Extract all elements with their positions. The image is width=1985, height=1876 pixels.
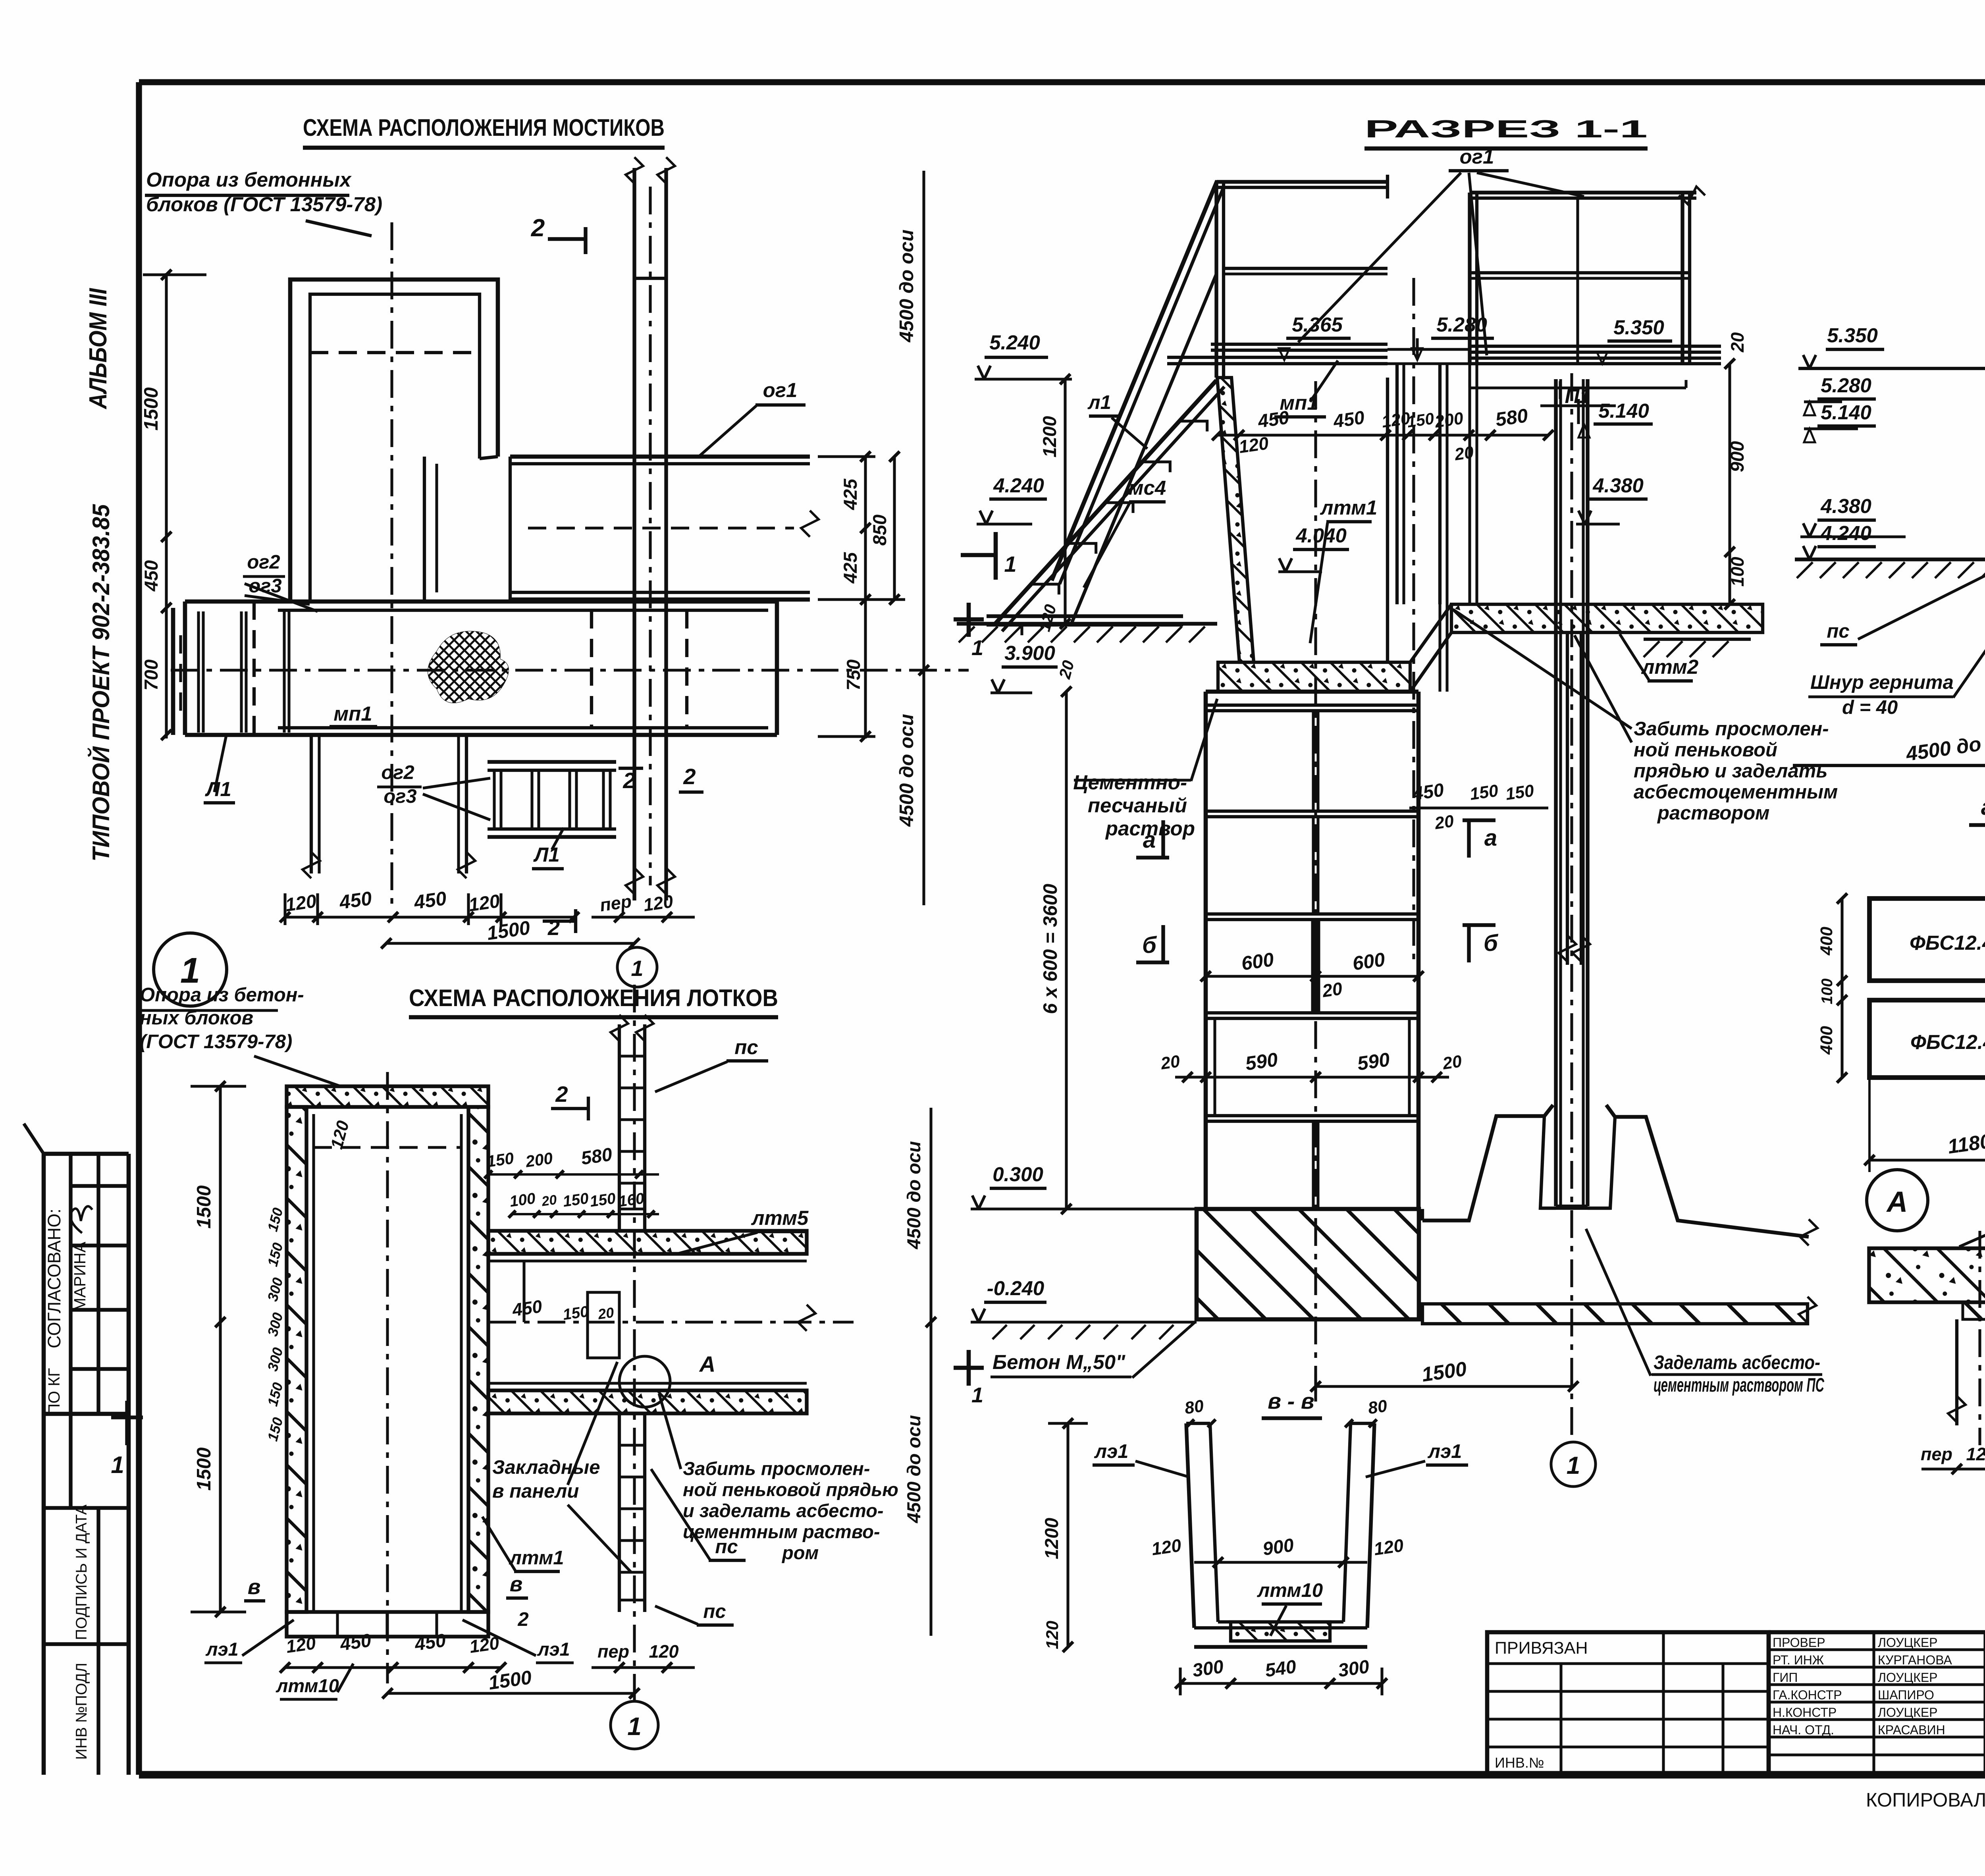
view1 left dim chain bbox=[165, 273, 168, 738]
svg-text:2: 2 bbox=[531, 214, 545, 242]
svg-text:20: 20 bbox=[1433, 812, 1455, 833]
svg-text:425: 425 bbox=[840, 552, 861, 584]
view3 left stair rails bbox=[1052, 181, 1217, 580]
svg-text:2: 2 bbox=[555, 1082, 568, 1107]
view4 ground left bbox=[1795, 557, 1985, 561]
svg-text:120: 120 bbox=[1372, 1535, 1405, 1559]
svg-text:20: 20 bbox=[1453, 443, 1475, 464]
view1 dims per 120 bbox=[592, 916, 695, 918]
svg-text:150: 150 bbox=[562, 1190, 590, 1211]
svg-text:20: 20 bbox=[597, 1304, 615, 1323]
detail A panel below bbox=[1955, 1319, 1958, 1425]
svg-text:450: 450 bbox=[338, 888, 373, 914]
svg-text:ной пеньковой: ной пеньковой bbox=[1634, 739, 1777, 761]
svg-text:ром: ром bbox=[781, 1542, 819, 1563]
view2 axis bbox=[386, 1072, 389, 1683]
svg-text:900: 900 bbox=[1727, 441, 1748, 472]
svg-text:120: 120 bbox=[1150, 1535, 1182, 1559]
svg-text:450: 450 bbox=[1256, 407, 1290, 432]
svg-text:100: 100 bbox=[1819, 978, 1836, 1004]
svg-text:б: б bbox=[1484, 930, 1499, 956]
svg-text:4500 до оси: 4500 до оси bbox=[1904, 727, 1985, 765]
view2 right wall bbox=[468, 1107, 488, 1612]
svg-text:прядью и заделать: прядью и заделать bbox=[1634, 760, 1827, 782]
sheet frame bbox=[139, 79, 1985, 85]
svg-text:АЛЬБОМ III: АЛЬБОМ III bbox=[85, 287, 112, 409]
svg-text:Бетон М„50": Бетон М„50" bbox=[992, 1351, 1125, 1373]
svg-text:120: 120 bbox=[1237, 433, 1270, 457]
view2 circle 1 bottom bbox=[611, 1701, 658, 1749]
svg-text:4.040: 4.040 bbox=[1295, 524, 1347, 547]
view1 right dim chains bbox=[864, 457, 867, 738]
svg-text:1500: 1500 bbox=[486, 917, 531, 945]
view1 section 1-1 mark right bbox=[961, 553, 996, 557]
svg-text:Опора из бетон-: Опора из бетон- bbox=[140, 984, 304, 1006]
section v-v bottom bbox=[1218, 1620, 1343, 1623]
view3 right platform bbox=[1468, 193, 1471, 364]
svg-text:ФБС12.4.6-Т: ФБС12.4.6-Т bbox=[1910, 931, 1985, 954]
view3 P1 bracket bbox=[1470, 386, 1686, 389]
view2 panel upper bbox=[618, 1024, 621, 1231]
svg-text:5.365: 5.365 bbox=[1292, 313, 1343, 336]
svg-text:4.380: 4.380 bbox=[1820, 495, 1871, 517]
svg-text:580: 580 bbox=[580, 1143, 613, 1168]
svg-text:мс4: мс4 bbox=[1129, 476, 1166, 499]
svg-text:-0.240: -0.240 bbox=[987, 1277, 1045, 1300]
svg-text:в: в bbox=[510, 1572, 523, 1596]
view2 arm inner lines bbox=[488, 1259, 807, 1262]
svg-text:5.240: 5.240 bbox=[989, 331, 1040, 354]
view3 bottom strip bbox=[1422, 1304, 1808, 1324]
view3 T1 mark bottom bbox=[967, 1350, 971, 1386]
svg-text:песчаный: песчаный bbox=[1088, 794, 1187, 817]
svg-text:20: 20 bbox=[1159, 1052, 1181, 1073]
svg-text:ШАПИРО: ШАПИРО bbox=[1878, 1688, 1934, 1702]
svg-text:ИНВ №ПОДЛ: ИНВ №ПОДЛ bbox=[73, 1663, 90, 1760]
svg-text:пер: пер bbox=[599, 891, 633, 916]
svg-text:1500: 1500 bbox=[193, 1185, 215, 1228]
view3 left deck bbox=[1211, 343, 1388, 346]
svg-text:5.350: 5.350 bbox=[1613, 316, 1664, 339]
svg-text:150: 150 bbox=[264, 1415, 286, 1443]
view3 circle 1 bottom bbox=[1551, 1442, 1596, 1487]
view3 right deck bbox=[1470, 345, 1721, 348]
view1 crosshatch blob bbox=[428, 631, 509, 703]
signature table bbox=[1767, 1632, 1771, 1775]
svg-text:590: 590 bbox=[1244, 1049, 1279, 1075]
view3 ground left bbox=[957, 622, 1217, 625]
view3 dim 900 right bbox=[1728, 364, 1731, 604]
view3 trough right edge bbox=[1386, 378, 1389, 662]
svg-text:лэ1: лэ1 bbox=[1094, 1441, 1129, 1462]
svg-text:пер: пер bbox=[1921, 1444, 1952, 1464]
svg-text:400: 400 bbox=[1817, 927, 1836, 956]
svg-text:ЛОУЦКЕР: ЛОУЦКЕР bbox=[1878, 1670, 1938, 1685]
left stamp table bbox=[42, 1154, 46, 1775]
svg-text:400: 400 bbox=[1817, 1026, 1836, 1055]
svg-text:5.140: 5.140 bbox=[1598, 399, 1649, 422]
view1 tank outline bbox=[290, 280, 498, 603]
svg-text:150: 150 bbox=[562, 1303, 590, 1324]
svg-text:450: 450 bbox=[413, 1629, 447, 1655]
section v-v dim 1200 bbox=[1066, 1423, 1069, 1647]
section v-v walls bbox=[1186, 1423, 1194, 1628]
svg-text:1: 1 bbox=[111, 1452, 124, 1478]
svg-text:пс: пс bbox=[734, 1036, 758, 1059]
detail A joint block bbox=[1963, 1302, 1985, 1319]
svg-text:4.240: 4.240 bbox=[993, 474, 1044, 497]
svg-text:пер: пер bbox=[597, 1641, 629, 1662]
section a-a block1 bbox=[1869, 898, 1985, 981]
view2 top wall strip bbox=[287, 1086, 488, 1107]
view3 dim 590 590 bbox=[1175, 1076, 1449, 1078]
svg-text:Шнур гернита: Шнур гернита bbox=[1810, 672, 1954, 693]
svg-text:Опора из бетонных: Опора из бетонных bbox=[146, 168, 352, 191]
svg-text:4.240: 4.240 bbox=[1820, 522, 1871, 544]
svg-text:А: А bbox=[699, 1352, 715, 1377]
svg-text:(ГОСТ 13579-78): (ГОСТ 13579-78) bbox=[140, 1031, 292, 1053]
svg-text:300: 300 bbox=[264, 1346, 286, 1373]
svg-text:150: 150 bbox=[486, 1149, 515, 1171]
view2 inner wall lines bbox=[312, 1114, 315, 1612]
svg-text:6 х 600 = 3600: 6 х 600 = 3600 bbox=[1040, 884, 1061, 1014]
svg-text:СХЕМА РАСПОЛОЖЕНИЯ ЛОТКОВ: СХЕМА РАСПОЛОЖЕНИЯ ЛОТКОВ bbox=[409, 985, 778, 1011]
svg-text:300: 300 bbox=[1337, 1656, 1370, 1681]
section mark 1 left bbox=[111, 1415, 143, 1419]
svg-text:4500 до оси: 4500 до оси bbox=[903, 1415, 924, 1523]
svg-text:0.300: 0.300 bbox=[992, 1163, 1043, 1186]
view3 trough left wall bbox=[1217, 378, 1254, 662]
view1 right walkway P1 bbox=[510, 455, 810, 459]
svg-text:СОГЛАСОВАНО:: СОГЛАСОВАНО: bbox=[44, 1209, 64, 1348]
view1 4500 do osi dim bbox=[922, 171, 925, 905]
svg-text:5.350: 5.350 bbox=[1827, 324, 1878, 347]
svg-text:150: 150 bbox=[1469, 781, 1499, 804]
view1 left arm bbox=[171, 608, 175, 735]
svg-text:540: 540 bbox=[1264, 1656, 1297, 1681]
svg-text:150: 150 bbox=[264, 1206, 286, 1233]
view2 detail circle A bbox=[619, 1356, 670, 1407]
svg-text:100: 100 bbox=[1727, 557, 1748, 586]
svg-text:ГИП: ГИП bbox=[1773, 1670, 1798, 1685]
view3 pedestal bbox=[1422, 1105, 1553, 1220]
view2 inner step lines bbox=[522, 1261, 525, 1322]
svg-text:Заделать асбесто-: Заделать асбесто- bbox=[1654, 1352, 1820, 1373]
svg-text:450: 450 bbox=[511, 1296, 543, 1320]
svg-text:120: 120 bbox=[1043, 1621, 1062, 1649]
svg-text:20: 20 bbox=[1727, 332, 1748, 353]
view3 deck across gap bbox=[1388, 348, 1470, 351]
svg-text:ЛОУЦКЕР: ЛОУЦКЕР bbox=[1878, 1635, 1938, 1650]
view3 T1 mark left bbox=[967, 603, 971, 637]
view2 right dim 4500 bbox=[929, 1108, 932, 1636]
svg-text:4500 до оси: 4500 до оси bbox=[896, 229, 917, 343]
svg-text:750: 750 bbox=[843, 659, 864, 690]
svg-text:300: 300 bbox=[264, 1276, 286, 1303]
svg-text:НАЧ. ОТД.: НАЧ. ОТД. bbox=[1773, 1723, 1834, 1737]
svg-text:лэ1: лэ1 bbox=[205, 1639, 238, 1660]
view3 dim 6x600 bbox=[1065, 692, 1068, 1209]
svg-text:ПОДПИСЬ И ДАТА: ПОДПИСЬ И ДАТА bbox=[73, 1504, 90, 1640]
svg-text:Л1: Л1 bbox=[533, 843, 559, 866]
svg-text:цементным раство-: цементным раство- bbox=[683, 1521, 880, 1542]
view3 right slab hatched bbox=[1451, 604, 1763, 632]
svg-text:120: 120 bbox=[285, 1633, 317, 1657]
svg-text:450: 450 bbox=[338, 1629, 372, 1655]
svg-text:150: 150 bbox=[264, 1380, 286, 1408]
svg-text:5.280: 5.280 bbox=[1436, 313, 1487, 336]
svg-text:120: 120 bbox=[1966, 1444, 1985, 1464]
svg-text:РТ. ИНЖ: РТ. ИНЖ bbox=[1773, 1653, 1824, 1667]
view3 ground right bbox=[1644, 638, 1751, 641]
svg-text:Забить просмолен-: Забить просмолен- bbox=[683, 1458, 870, 1479]
svg-text:лтм1: лтм1 bbox=[509, 1547, 564, 1569]
svg-text:Забить просмолен-: Забить просмолен- bbox=[1634, 718, 1829, 740]
detail A circle bbox=[1867, 1170, 1928, 1231]
svg-text:ог3: ог3 bbox=[384, 786, 416, 807]
svg-text:лтм2: лтм2 bbox=[1641, 656, 1699, 678]
view3 tower center joints bbox=[1312, 711, 1314, 811]
svg-text:700: 700 bbox=[141, 659, 162, 690]
view1 riser column bbox=[632, 168, 636, 900]
svg-text:120: 120 bbox=[467, 890, 501, 915]
svg-text:120: 120 bbox=[649, 1641, 678, 1662]
svg-text:КРАСАВИН: КРАСАВИН bbox=[1878, 1723, 1945, 1737]
view1 bottom dim chain bbox=[285, 916, 574, 918]
svg-text:лтм1: лтм1 bbox=[1320, 496, 1378, 519]
svg-text:120: 120 bbox=[642, 891, 674, 915]
view3 tower blocks bbox=[1204, 692, 1208, 1209]
view1 tank walls below band bbox=[310, 735, 313, 873]
svg-text:450: 450 bbox=[1411, 779, 1445, 804]
svg-text:1500: 1500 bbox=[1420, 1357, 1468, 1386]
svg-text:200: 200 bbox=[524, 1149, 554, 1171]
view3 left platform post bbox=[1214, 182, 1218, 378]
svg-text:1180: 1180 bbox=[1946, 1130, 1985, 1158]
svg-text:1: 1 bbox=[1567, 1452, 1580, 1479]
svg-text:120: 120 bbox=[468, 1633, 500, 1657]
svg-text:лтм10: лтм10 bbox=[1257, 1580, 1323, 1601]
svg-text:450: 450 bbox=[412, 888, 448, 914]
svg-text:1500: 1500 bbox=[193, 1447, 215, 1490]
svg-text:150: 150 bbox=[1504, 781, 1535, 804]
svg-text:лтм10: лтм10 bbox=[276, 1675, 339, 1696]
privyazan table bbox=[1487, 1632, 1769, 1775]
svg-text:300: 300 bbox=[1191, 1656, 1225, 1681]
svg-text:раствором: раствором bbox=[1657, 802, 1769, 824]
view1 bridge band MP1 bbox=[185, 600, 777, 604]
svg-text:А: А bbox=[1886, 1186, 1908, 1218]
view3 ps panel below slab bbox=[1566, 632, 1569, 965]
view3 dim 600 600 bbox=[1206, 975, 1418, 978]
svg-text:ПРИВЯЗАН: ПРИВЯЗАН bbox=[1495, 1639, 1588, 1658]
view1 axis horizontal bbox=[171, 669, 969, 671]
svg-text:Н.КОНСТР: Н.КОНСТР bbox=[1773, 1705, 1837, 1720]
svg-text:мп1: мп1 bbox=[333, 702, 372, 725]
svg-text:2: 2 bbox=[683, 764, 696, 789]
svg-text:ГА.КОНСТР: ГА.КОНСТР bbox=[1773, 1688, 1842, 1702]
svg-text:1500: 1500 bbox=[487, 1667, 533, 1694]
svg-text:4500 до оси: 4500 до оси bbox=[896, 714, 917, 827]
svg-text:ФБС12.4.6-Т: ФБС12.4.6-Т bbox=[1910, 1031, 1985, 1053]
svg-text:2: 2 bbox=[517, 1609, 528, 1630]
svg-text:пс: пс bbox=[715, 1536, 738, 1558]
svg-text:Цементно-: Цементно- bbox=[1073, 771, 1187, 794]
svg-text:1: 1 bbox=[631, 956, 643, 981]
svg-text:лэ1: лэ1 bbox=[537, 1639, 570, 1660]
svg-text:ог2: ог2 bbox=[381, 762, 414, 783]
svg-text:20: 20 bbox=[1441, 1052, 1463, 1073]
svg-text:ПО КГ: ПО КГ bbox=[45, 1368, 63, 1415]
view3 stair base plates bbox=[987, 614, 1183, 618]
svg-text:ог1: ог1 bbox=[1460, 145, 1494, 168]
svg-text:150: 150 bbox=[589, 1190, 617, 1211]
view3 stair treads bbox=[994, 625, 1022, 635]
view3 foundation block bbox=[1197, 1209, 1419, 1319]
svg-text:300: 300 bbox=[264, 1311, 286, 1338]
svg-text:5.280: 5.280 bbox=[1821, 374, 1871, 397]
svg-text:л1: л1 bbox=[1087, 392, 1111, 413]
svg-text:900: 900 bbox=[1261, 1534, 1295, 1559]
svg-text:МАРИНА: МАРИНА bbox=[71, 1242, 89, 1311]
svg-text:20: 20 bbox=[1321, 978, 1344, 1001]
view3 mid dim chain bbox=[1217, 434, 1548, 436]
svg-text:580: 580 bbox=[1494, 405, 1529, 431]
svg-text:100: 100 bbox=[509, 1190, 537, 1211]
view2 arm top strip bbox=[488, 1231, 807, 1254]
view2 bottom dim chain bbox=[285, 1666, 501, 1669]
svg-text:КОПИРОВАЛ:: КОПИРОВАЛ: bbox=[1866, 1789, 1985, 1811]
svg-text:4500 до оси: 4500 до оси bbox=[903, 1141, 924, 1249]
svg-text:600: 600 bbox=[1240, 949, 1275, 975]
view2 left dim chain bbox=[219, 1086, 222, 1612]
svg-text:160: 160 bbox=[617, 1190, 646, 1211]
view3 dim 1200 bbox=[1064, 379, 1066, 624]
svg-text:а: а bbox=[1143, 827, 1156, 853]
svg-text:ЛОУЦКЕР: ЛОУЦКЕР bbox=[1878, 1705, 1938, 1720]
svg-text:1: 1 bbox=[1004, 551, 1016, 576]
svg-text:200: 200 bbox=[1433, 409, 1465, 432]
view1 tank-walkway diagonal bbox=[480, 457, 498, 459]
view1 lower ladder bbox=[488, 760, 616, 764]
svg-text:1200: 1200 bbox=[1041, 1518, 1062, 1560]
svg-text:4.380: 4.380 bbox=[1592, 474, 1644, 497]
detail A slab bbox=[1869, 1248, 1985, 1302]
svg-text:1: 1 bbox=[627, 1712, 642, 1741]
svg-text:б: б bbox=[1142, 932, 1157, 958]
section a-a dim 1180 bbox=[1868, 1078, 1871, 1172]
svg-text:СХЕМА РАСПОЛОЖЕНИЯ МОСТИКОВ: СХЕМА РАСПОЛОЖЕНИЯ МОСТИКОВ bbox=[303, 114, 665, 141]
view4 4500 do osi bbox=[1793, 764, 1985, 767]
svg-text:асбестоцементным: асбестоцементным bbox=[1634, 781, 1838, 803]
svg-text:пс: пс bbox=[1827, 621, 1849, 642]
view3 central panel verticals bbox=[1395, 364, 1399, 604]
svg-text:лэ1: лэ1 bbox=[1428, 1441, 1462, 1462]
view3 tower axis bbox=[1314, 381, 1317, 1402]
svg-text:1500: 1500 bbox=[141, 387, 162, 430]
view2 arm bottom strip bbox=[488, 1390, 807, 1413]
svg-text:ТИПОВОЙ ПРОЕКТ 902-2-383.85: ТИПОВОЙ ПРОЕКТ 902-2-383.85 bbox=[87, 503, 114, 862]
svg-text:1: 1 bbox=[971, 636, 983, 660]
view3 dim 1500 bottom bbox=[1316, 1385, 1573, 1388]
svg-text:цементным раствором ПС: цементным раствором ПС bbox=[1654, 1375, 1824, 1396]
svg-text:450: 450 bbox=[141, 560, 162, 592]
svg-text:425: 425 bbox=[840, 478, 861, 510]
view3 left platform rails bbox=[1216, 180, 1388, 183]
view3 trough bottom band bbox=[1218, 662, 1410, 692]
view1 circle 1 left bbox=[154, 933, 227, 1006]
svg-text:а - а: а - а bbox=[1981, 794, 1985, 820]
svg-text:ог1: ог1 bbox=[763, 379, 798, 401]
svg-text:80: 80 bbox=[1183, 1396, 1205, 1418]
svg-text:ной пеньковой прядью: ной пеньковой прядью bbox=[683, 1479, 898, 1500]
svg-text:в: в bbox=[248, 1575, 261, 1599]
section v-v dims mid bbox=[1194, 1561, 1367, 1564]
svg-text:150: 150 bbox=[1406, 409, 1435, 431]
svg-text:ПРОВЕР: ПРОВЕР bbox=[1773, 1635, 1825, 1650]
svg-text:3.900: 3.900 bbox=[1004, 642, 1055, 664]
svg-text:20: 20 bbox=[1055, 658, 1078, 681]
svg-text:590: 590 bbox=[1356, 1049, 1391, 1075]
view2 bottom lintels bbox=[287, 1612, 488, 1637]
section a-a left dims bbox=[1840, 898, 1843, 1078]
svg-text:2: 2 bbox=[622, 768, 635, 793]
svg-text:d = 40: d = 40 bbox=[1842, 697, 1898, 718]
view3 column bbox=[1554, 379, 1557, 1206]
svg-text:КУРГАНОВА: КУРГАНОВА bbox=[1878, 1653, 1952, 1667]
svg-text:Закладные: Закладные bbox=[492, 1457, 600, 1478]
svg-text:5.140: 5.140 bbox=[1821, 401, 1871, 424]
svg-text:лтм5: лтм5 bbox=[751, 1207, 809, 1229]
svg-text:а: а bbox=[1484, 825, 1497, 851]
svg-text:пс: пс bbox=[703, 1601, 726, 1622]
svg-text:ог2: ог2 bbox=[247, 551, 280, 573]
section v-v bottom dims bbox=[1180, 1682, 1382, 1685]
svg-text:ИНВ.№: ИНВ.№ bbox=[1495, 1755, 1544, 1771]
svg-text:80: 80 bbox=[1367, 1396, 1388, 1418]
svg-text:120: 120 bbox=[1035, 602, 1060, 633]
view2 panel lower bbox=[618, 1413, 621, 1612]
svg-text:1200: 1200 bbox=[1039, 416, 1060, 458]
svg-text:и заделать асбесто-: и заделать асбесто- bbox=[683, 1500, 884, 1521]
svg-text:450: 450 bbox=[1332, 407, 1366, 432]
view2 circle 1 top bbox=[617, 947, 657, 987]
view2 left wall bbox=[287, 1107, 306, 1612]
view1 axis vertical bbox=[390, 222, 393, 905]
svg-text:20: 20 bbox=[540, 1192, 558, 1209]
svg-text:в панели: в панели bbox=[492, 1481, 579, 1502]
section a-a block2 bbox=[1869, 1000, 1985, 1078]
svg-text:150: 150 bbox=[264, 1241, 286, 1268]
view2 panel axis bbox=[633, 985, 636, 1703]
svg-text:1: 1 bbox=[971, 1383, 983, 1407]
svg-text:850: 850 bbox=[869, 515, 890, 546]
svg-text:120: 120 bbox=[284, 890, 318, 915]
svg-text:РАЗРЕЗ 1-1: РАЗРЕЗ 1-1 bbox=[1364, 116, 1648, 143]
svg-text:в - в: в - в bbox=[1268, 1388, 1314, 1413]
svg-text:600: 600 bbox=[1351, 949, 1386, 975]
